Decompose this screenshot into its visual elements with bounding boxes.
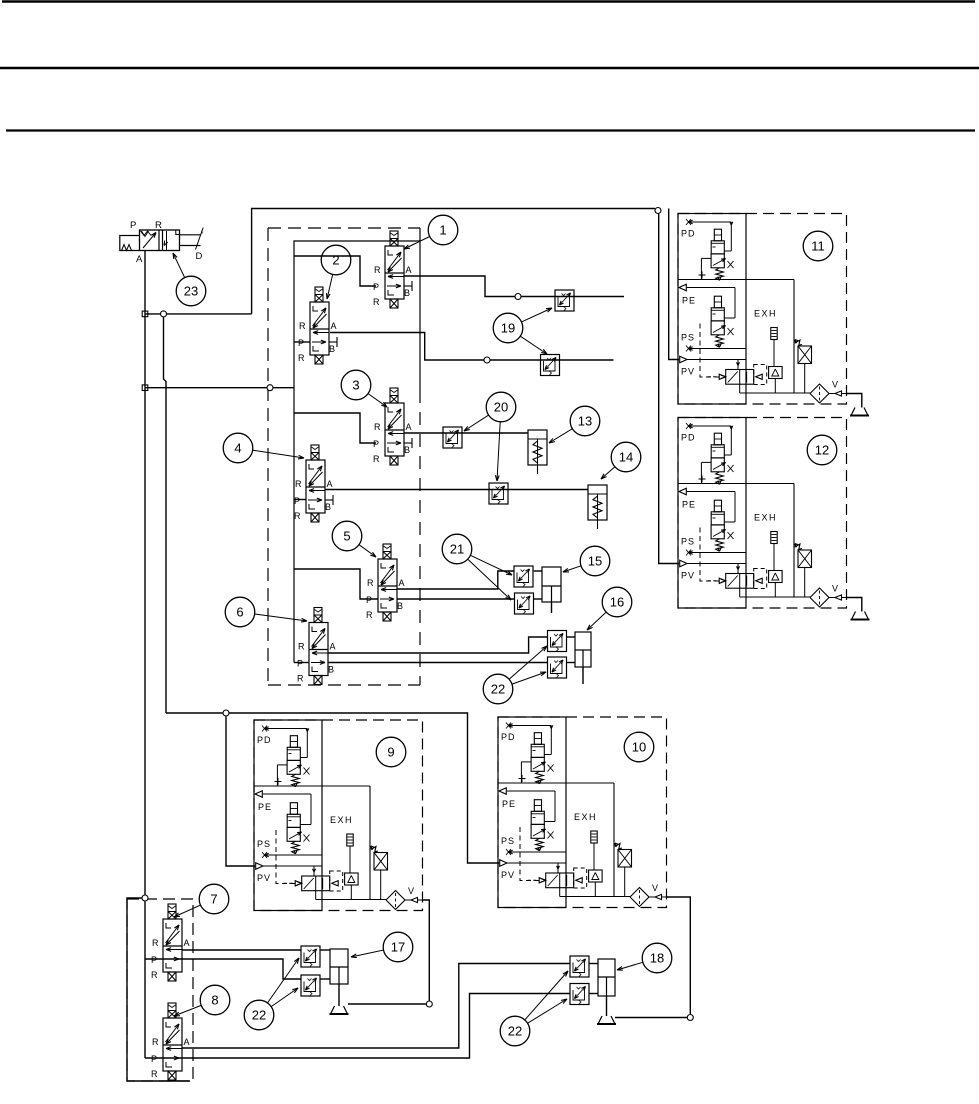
svg-text:A: A [330, 642, 336, 652]
node cross feed [223, 710, 229, 716]
muffler module 12 [852, 612, 869, 620]
svg-text:PD: PD [501, 732, 516, 742]
svg-text:A: A [136, 254, 143, 265]
svg-text:R: R [155, 220, 162, 231]
wire lower feed loop [127, 898, 190, 1081]
callout balloon 20 [486, 392, 516, 422]
page header rule top [2, 0, 975, 2]
module 12 PV port [680, 560, 687, 567]
air control module 11 enclosure [678, 214, 847, 405]
junction node lower [142, 385, 148, 391]
module 12 exhaust restrictor [771, 532, 777, 544]
wire cross feed to module 10 [166, 713, 499, 863]
svg-text:P: P [151, 1054, 157, 1064]
svg-text:15: 15 [588, 554, 602, 569]
callout balloon 7 [199, 884, 229, 914]
flow control valve 22A [301, 946, 320, 967]
svg-text:P: P [297, 659, 303, 669]
wire valve 1 pilot supply [294, 256, 376, 286]
svg-text:B: B [329, 344, 335, 354]
valve 6 pilot box [314, 608, 322, 623]
svg-text:R: R [151, 1069, 158, 1079]
callout balloon 17 [383, 932, 413, 962]
svg-text:B: B [404, 288, 410, 298]
module 12 filter [810, 588, 829, 607]
wire valve 5 pilot supply [294, 569, 378, 599]
air control module 10 enclosure [498, 717, 667, 908]
callout balloon 4 [223, 433, 253, 463]
svg-text:9: 9 [387, 745, 394, 760]
valve 4 exhaust box [311, 513, 319, 522]
callout balloon 13 [570, 406, 600, 436]
module 11 pilot valve [726, 370, 754, 385]
wire 16B to actuator 16 [566, 662, 575, 664]
valve 5 body [378, 559, 397, 612]
svg-text:19: 19 [501, 321, 515, 336]
svg-text:P: P [298, 338, 304, 348]
module 12 pilot check box [795, 544, 802, 550]
callout balloon 8 [200, 985, 230, 1015]
wire valve 5 B signal [397, 598, 515, 600]
valve 8 pilot box [168, 1003, 176, 1018]
svg-text:PS: PS [681, 537, 695, 547]
wire valve 7 A signal [182, 949, 301, 951]
svg-text:A: A [406, 422, 412, 432]
flow control valve 20B [489, 483, 508, 504]
svg-text:R: R [151, 970, 158, 980]
callout balloon 14 [611, 442, 641, 472]
module 12 regulator PE [714, 500, 721, 512]
svg-text:B: B [404, 445, 410, 455]
valve 2 exhaust box [315, 355, 323, 364]
svg-text:R: R [374, 422, 381, 432]
svg-text:R: R [152, 938, 159, 948]
callout balloon 9 [376, 737, 406, 767]
module 9 PE port [255, 791, 262, 798]
module 12 regulator PD [714, 433, 721, 445]
svg-text:14: 14 [619, 450, 633, 465]
module 10 PD pilot line [508, 725, 551, 727]
svg-text:PE: PE [258, 802, 272, 812]
valve 7 exhaust box [168, 972, 176, 981]
module 10 regulator PE [534, 800, 541, 812]
muffler actuator 17 [331, 1006, 348, 1014]
svg-text:21: 21 [450, 542, 464, 557]
valve 1 body [385, 246, 404, 299]
module 11 regulator PD [714, 229, 721, 241]
module 9 PD pilot line [264, 728, 307, 730]
callout balloon 19 [493, 313, 523, 343]
callout balloon 22 [483, 674, 513, 704]
svg-text:23: 23 [184, 284, 198, 299]
svg-text:PS: PS [257, 839, 271, 849]
callout balloon 16 [602, 587, 632, 617]
module 12 pilot valve [726, 574, 754, 589]
svg-text:V: V [408, 886, 414, 896]
muffler actuator 18 [598, 1016, 615, 1024]
callout balloon 2 [321, 245, 351, 275]
svg-text:1: 1 [439, 223, 446, 238]
module 9 regulator PD [290, 736, 297, 748]
wire left bus A upper [144, 314, 146, 388]
module 11 check valve [769, 367, 783, 379]
svg-text:22: 22 [508, 1024, 522, 1039]
node bus A end [142, 895, 148, 901]
module 11 compartment divider and drain [678, 279, 794, 281]
svg-text:B: B [328, 665, 334, 675]
svg-text:16: 16 [610, 595, 624, 610]
module 12 check valve [769, 571, 783, 583]
module 9 filter [386, 891, 405, 910]
module 12 PD pilot line [688, 425, 731, 427]
valve 8 exhaust box [168, 1071, 176, 1080]
node module 10 outlet [687, 1015, 693, 1021]
svg-text:A: A [184, 1037, 190, 1047]
svg-text:R: R [367, 578, 374, 588]
svg-text:A: A [331, 321, 337, 331]
callout balloon 3 [341, 370, 371, 400]
air control module 9 enclosure [254, 720, 423, 911]
page header rule middle [0, 67, 979, 70]
module 10 check valve [589, 870, 603, 882]
module 9 check valve [345, 873, 359, 885]
valve 3 exhaust box [390, 456, 398, 465]
manifold inner solid box right edge [419, 228, 421, 390]
valve 3 pilot box [390, 388, 398, 403]
module 10 PE port [499, 788, 506, 795]
valve 1 pilot box [390, 231, 398, 246]
callout balloon 21 [442, 534, 472, 564]
valve 1 exhaust box [390, 299, 398, 308]
svg-text:2: 2 [332, 253, 339, 268]
svg-text:22: 22 [252, 1008, 266, 1023]
manifold dashed enclosure bottom edge [268, 684, 420, 686]
wire left bus B [164, 317, 167, 713]
actuator 18 body [598, 959, 615, 996]
wire 21B to actuator 15 [534, 598, 542, 600]
module 9 pilot valve [302, 876, 330, 891]
wire supply header [145, 313, 252, 315]
valve 23 body [140, 230, 180, 251]
wire valve 6 B signal [328, 662, 548, 664]
valve 5 exhaust box [383, 612, 391, 621]
svg-text:P: P [151, 955, 157, 965]
svg-text:17: 17 [391, 940, 405, 955]
svg-text:R: R [373, 454, 380, 464]
svg-text:PV: PV [681, 367, 695, 377]
wire valve 4 pilot supply [294, 499, 306, 501]
wire 22D to actuator 18 [589, 993, 598, 995]
callout balloon 15 [580, 546, 610, 576]
svg-text:5: 5 [343, 529, 350, 544]
svg-text:EXH: EXH [754, 309, 777, 319]
svg-text:PD: PD [681, 433, 696, 443]
flow control valve 19B [541, 355, 560, 376]
node on dashed boundary [267, 385, 273, 391]
module 11 filter [810, 384, 829, 403]
wire module 9 outlet [423, 900, 430, 1004]
module 10 regulator PD [534, 733, 541, 745]
valve 8 body [163, 1018, 182, 1071]
svg-text:11: 11 [811, 239, 825, 254]
module 10 compartment divider and drain [498, 782, 614, 784]
node top rail [655, 208, 661, 214]
valve 6 body [309, 623, 328, 676]
svg-text:V: V [832, 380, 838, 390]
valve 2 pilot box [315, 287, 323, 302]
wire left bus A lower [144, 388, 146, 898]
svg-text:V: V [832, 584, 838, 594]
svg-text:20: 20 [494, 400, 508, 415]
manifold dashed enclosure top edge [268, 227, 420, 229]
svg-text:12: 12 [815, 443, 829, 458]
module 12 PS pilot line [688, 552, 746, 554]
module 10 pilot valve [546, 873, 574, 888]
actuator 15 body [542, 567, 561, 602]
wire branch to module 9 PV [226, 716, 255, 866]
wire muffler 17 to module 9 outlet [348, 1003, 426, 1005]
flow control valve 19A [555, 290, 574, 311]
wire module 11 outlet [847, 394, 862, 408]
node on signal 1 [515, 294, 521, 300]
module 9 exhaust restrictor [347, 834, 353, 846]
module 11 PD pilot line [688, 221, 731, 223]
manifold inner solid box [294, 241, 420, 663]
module 12 compartment divider and drain [678, 483, 794, 485]
wire muffler 18 to module 10 outlet [615, 1017, 687, 1019]
module 10 pilot check box [615, 843, 622, 849]
actuator 16 stem [582, 667, 584, 684]
svg-text:EXH: EXH [574, 812, 597, 822]
flow control valve 21A [514, 566, 533, 587]
wire 22A to actuator 17 [320, 949, 330, 951]
wire valve 7 B signal [145, 959, 301, 979]
valve 3 body [385, 403, 404, 456]
regulator 14 body [588, 485, 607, 520]
svg-text:P: P [130, 220, 136, 231]
wire module 10 outlet [667, 897, 691, 1014]
svg-text:PV: PV [501, 870, 515, 880]
valve 23 actuator rod [180, 234, 201, 236]
module 11 exhaust restrictor [771, 328, 777, 340]
wire valve 3 A signal [404, 432, 528, 434]
wire 21A to actuator 15 [534, 570, 542, 572]
svg-text:R: R [374, 265, 381, 275]
svg-text:13: 13 [578, 414, 592, 429]
svg-text:R: R [294, 511, 301, 521]
callout balloon 22 [244, 1000, 274, 1030]
wire pilot supply to manifold [145, 387, 294, 389]
svg-text:R: R [299, 321, 306, 331]
svg-text:PV: PV [681, 571, 695, 581]
svg-text:22: 22 [491, 682, 505, 697]
svg-text:R: R [373, 297, 380, 307]
module 12 output bus [740, 596, 810, 598]
actuator 16 body [575, 632, 591, 667]
svg-text:PE: PE [502, 799, 516, 809]
wire bus A into lower valves [144, 901, 146, 1058]
wire valve 23 outlet down [144, 251, 146, 314]
valve 5 pilot box [383, 544, 391, 559]
svg-text:P: P [366, 595, 372, 605]
svg-text:PS: PS [501, 836, 515, 846]
regulator 13 body [528, 430, 547, 465]
flow control valve 21B [515, 593, 534, 614]
callout balloon 10 [624, 732, 654, 762]
flow control valve 16B [548, 657, 567, 678]
wire valve 8 A signal [182, 964, 570, 1049]
wire valve 3 pilot supply [294, 413, 376, 443]
module 11 pilot check box [795, 340, 802, 346]
valve 6 exhaust box [314, 676, 322, 685]
callout balloon 1 [428, 215, 458, 245]
svg-text:V: V [652, 883, 658, 893]
actuator 17 stem [338, 984, 340, 1006]
wire 16A to actuator 16 [566, 636, 575, 638]
module 11 PV port [680, 356, 687, 363]
callout balloon 22 [500, 1016, 530, 1046]
svg-text:R: R [298, 642, 305, 652]
wire valve 5 A signal [397, 571, 514, 589]
flow control valve 22C [570, 956, 589, 977]
node supply branch [161, 311, 167, 317]
actuator 17 body [330, 949, 348, 984]
node module 9 outlet [426, 1001, 432, 1007]
wire valve 2 A signal [330, 333, 614, 361]
air control module 12 enclosure [678, 418, 847, 609]
wire 22C to actuator 18 [589, 963, 598, 965]
wire feed module 11 PV [669, 209, 679, 360]
svg-text:PD: PD [257, 735, 272, 745]
svg-text:A: A [399, 578, 405, 588]
svg-text:PV: PV [257, 873, 271, 883]
callout balloon 12 [807, 435, 837, 465]
callout balloon 6 [225, 597, 255, 627]
valve 2 body [310, 302, 329, 355]
svg-text:A: A [327, 479, 333, 489]
callout balloon 23 [176, 276, 206, 306]
valve 7 pilot box [168, 904, 176, 919]
svg-text:R: R [152, 1037, 159, 1047]
module 9 pilot check box [371, 846, 378, 852]
wire module 12 outlet [847, 598, 862, 612]
svg-text:3: 3 [352, 378, 359, 393]
module 11 regulator PE [714, 296, 721, 308]
svg-text:B: B [397, 601, 403, 611]
valve 4 pilot box [311, 445, 319, 460]
wire 22B to actuator 17 [320, 978, 330, 980]
wire valve 6 A signal [328, 637, 548, 653]
svg-text:PD: PD [681, 229, 696, 239]
module 10 filter [630, 888, 649, 907]
wire valve 6 pilot supply [294, 662, 309, 664]
module 11 output bus [740, 392, 810, 394]
wire valve 2 pilot supply [294, 341, 310, 343]
svg-text:10: 10 [632, 740, 646, 755]
svg-text:EXH: EXH [754, 513, 777, 523]
module 11 PE port [679, 284, 686, 291]
svg-text:B: B [325, 502, 331, 512]
svg-text:PE: PE [682, 296, 696, 306]
flow control valve 20A [443, 427, 462, 448]
actuator 18 stem [606, 996, 608, 1016]
module 10 output bus [560, 896, 630, 898]
module 9 regulator PE [290, 803, 297, 815]
manifold dashed enclosure right edge [419, 390, 421, 685]
module 10 PV port [500, 860, 507, 867]
module 9 PS pilot line [264, 854, 322, 856]
svg-text:8: 8 [211, 993, 218, 1008]
manifold dashed enclosure left edge [267, 228, 269, 685]
module 10 exhaust restrictor [591, 831, 597, 843]
actuator 15 stem [551, 602, 553, 613]
module 10 PS pilot line [508, 851, 566, 853]
callout balloon 11 [803, 231, 833, 261]
page header rule lower [6, 129, 975, 131]
svg-text:18: 18 [650, 951, 664, 966]
svg-text:R: R [366, 610, 373, 620]
flow control valve 22D [570, 984, 589, 1005]
wire valve 1 A signal [404, 276, 624, 297]
svg-text:EXH: EXH [330, 815, 353, 825]
wire feed module 12 PV [659, 214, 679, 564]
node on signal 2 [484, 357, 490, 363]
svg-text:6: 6 [236, 605, 243, 620]
module 9 output bus [316, 899, 386, 901]
svg-text:A: A [184, 938, 190, 948]
lower dashed enclosure valves 7-8 [127, 899, 193, 1081]
module 9 compartment divider and drain [254, 785, 370, 787]
wire valve 8 B signal [145, 994, 570, 1059]
callout balloon 5 [332, 521, 362, 551]
module 9 PV port [256, 863, 263, 870]
flow control valve 16A [548, 631, 567, 652]
svg-text:PE: PE [682, 500, 696, 510]
svg-text:R: R [297, 674, 304, 684]
svg-text:P: P [373, 439, 379, 449]
module 12 PE port [679, 488, 686, 495]
valve 4 body [306, 460, 325, 513]
wire valve 4 A signal [325, 489, 588, 491]
svg-text:7: 7 [210, 892, 217, 907]
valve 23 manual actuator [120, 236, 140, 251]
svg-text:D: D [196, 251, 203, 262]
svg-text:R: R [295, 479, 302, 489]
muffler module 11 [851, 408, 868, 416]
module 11 PS pilot line [688, 348, 746, 350]
svg-text:P: P [294, 496, 300, 506]
flow control valve 22B [301, 975, 320, 996]
svg-text:R: R [298, 353, 305, 363]
svg-text:PS: PS [681, 333, 695, 343]
valve 7 body [163, 919, 182, 972]
svg-text:P: P [373, 282, 379, 292]
svg-text:A: A [406, 265, 412, 275]
junction node [142, 311, 148, 317]
svg-text:4: 4 [234, 441, 241, 456]
callout balloon 18 [642, 943, 672, 973]
wire riser to top rail [252, 209, 655, 314]
